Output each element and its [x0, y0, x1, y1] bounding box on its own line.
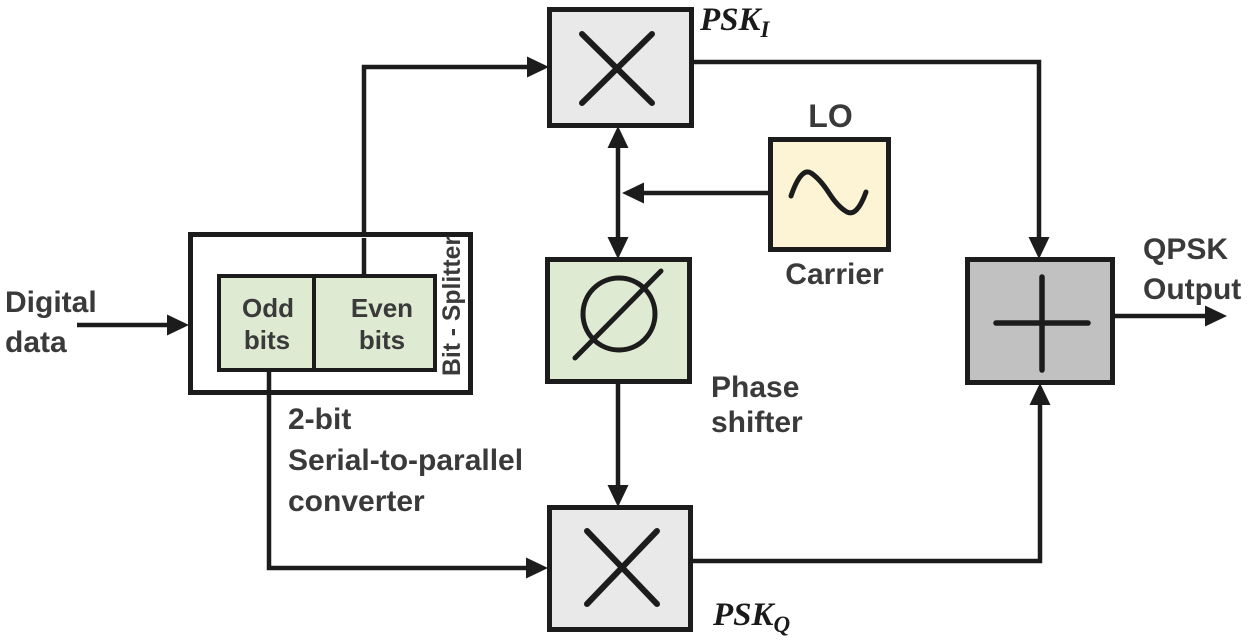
svg-text:2-bit: 2-bit — [288, 403, 351, 436]
svg-text:LO: LO — [808, 98, 852, 134]
svg-text:bits: bits — [244, 325, 290, 355]
svg-text:Even: Even — [351, 293, 413, 323]
svg-text:Bit - Splitter: Bit - Splitter — [438, 236, 466, 376]
svg-text:Odd: Odd — [242, 293, 294, 323]
svg-text:Output: Output — [1143, 273, 1241, 306]
svg-text:converter: converter — [288, 485, 425, 518]
svg-text:Digital: Digital — [5, 286, 97, 319]
svg-text:QPSK: QPSK — [1143, 233, 1228, 266]
svg-text:PSKI: PSKI — [699, 2, 771, 42]
svg-text:data: data — [5, 326, 67, 359]
svg-text:shifter: shifter — [711, 406, 803, 439]
svg-text:Carrier: Carrier — [785, 258, 884, 291]
svg-text:Phase: Phase — [711, 371, 799, 404]
svg-text:bits: bits — [359, 325, 405, 355]
svg-text:PSKQ: PSKQ — [712, 597, 790, 637]
svg-text:Serial-to-parallel: Serial-to-parallel — [288, 444, 523, 477]
